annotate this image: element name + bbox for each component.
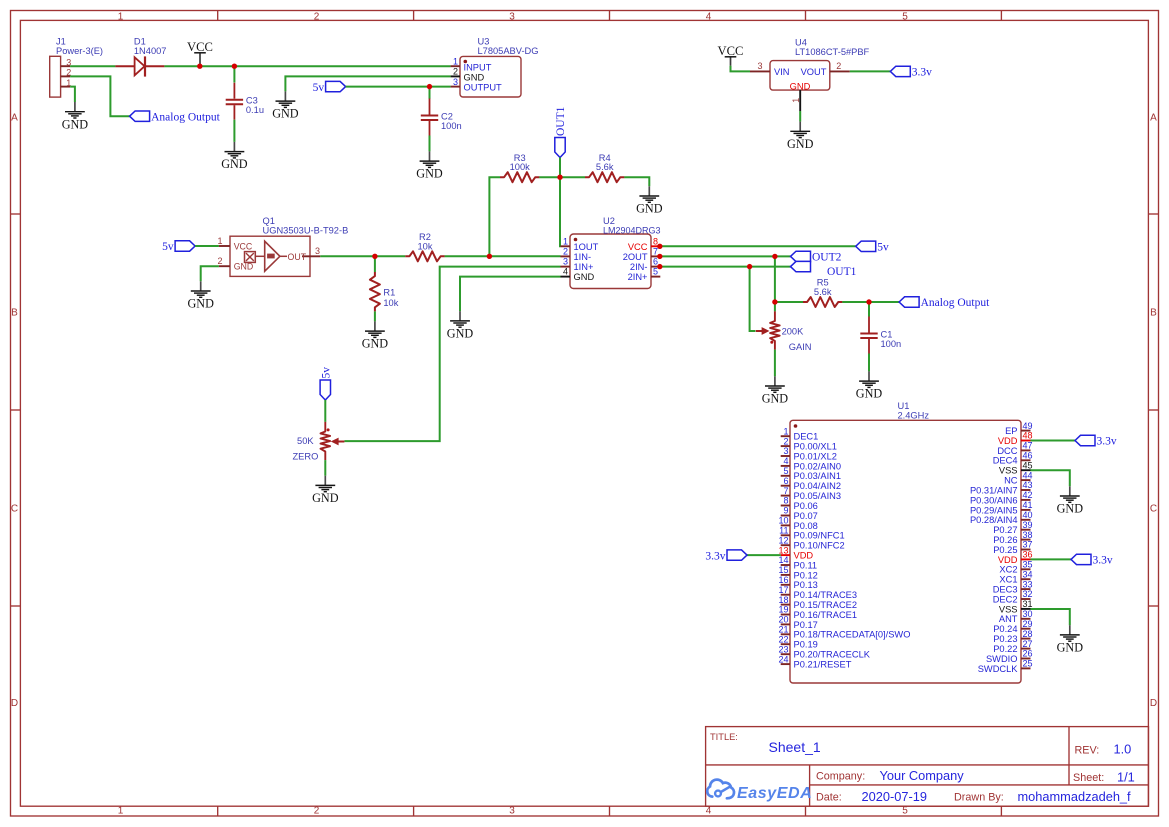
wire xyxy=(1031,558,1072,560)
svg-text:VDD: VDD xyxy=(998,555,1018,565)
svg-text:P0.08: P0.08 xyxy=(794,521,818,531)
wire VCC rail xyxy=(164,65,450,67)
svg-text:DEC1: DEC1 xyxy=(794,432,819,442)
wire xyxy=(201,266,219,281)
svg-text:U2: U2 xyxy=(603,216,615,226)
svg-text:VSS: VSS xyxy=(999,466,1018,476)
net flag 5v xyxy=(856,241,889,253)
svg-text:GND: GND xyxy=(1057,502,1084,516)
svg-text:50K: 50K xyxy=(297,436,314,446)
svg-text:D1: D1 xyxy=(134,37,146,47)
svg-text:D: D xyxy=(11,698,18,709)
svg-text:2IN-: 2IN- xyxy=(630,262,648,272)
svg-text:16: 16 xyxy=(778,575,788,585)
svg-text:3.3v: 3.3v xyxy=(912,67,932,79)
microcontroller U1 xyxy=(778,401,1032,683)
svg-text:EP: EP xyxy=(1005,426,1017,436)
svg-text:P0.01/XL2: P0.01/XL2 xyxy=(794,451,837,461)
junction xyxy=(657,244,662,249)
svg-text:100n: 100n xyxy=(441,121,462,131)
svg-text:ZERO: ZERO xyxy=(292,452,318,462)
wire xyxy=(324,400,326,422)
svg-text:D: D xyxy=(1150,698,1157,709)
svg-text:3: 3 xyxy=(509,11,515,22)
svg-text:48: 48 xyxy=(1023,431,1033,441)
svg-text:2: 2 xyxy=(783,436,788,446)
capacitor C3 xyxy=(233,83,235,99)
svg-text:P0.19: P0.19 xyxy=(794,640,818,650)
junction xyxy=(487,254,492,259)
svg-text:10: 10 xyxy=(778,516,788,526)
resistor R5 xyxy=(803,297,842,307)
svg-text:6: 6 xyxy=(783,476,788,486)
svg-text:30: 30 xyxy=(1023,609,1033,619)
svg-text:GND: GND xyxy=(416,167,443,181)
wire xyxy=(799,111,801,122)
svg-text:P0.22: P0.22 xyxy=(993,644,1017,654)
svg-text:31: 31 xyxy=(1023,599,1033,609)
svg-text:Your Company: Your Company xyxy=(880,768,965,783)
svg-text:P0.04/AIN2: P0.04/AIN2 xyxy=(794,481,842,491)
svg-text:34: 34 xyxy=(1023,569,1033,579)
net flag OUT1 xyxy=(555,106,567,157)
diode D1 xyxy=(115,37,166,77)
svg-text:DCC: DCC xyxy=(997,446,1017,456)
wire xyxy=(750,267,756,331)
svg-text:P0.24: P0.24 xyxy=(993,624,1017,634)
svg-text:44: 44 xyxy=(1023,470,1033,480)
svg-text:ANT: ANT xyxy=(999,614,1018,624)
junction xyxy=(232,63,237,68)
svg-text:REV:: REV: xyxy=(1075,745,1100,757)
net flag Analog Output xyxy=(899,297,990,309)
svg-text:GND: GND xyxy=(221,157,248,171)
svg-text:VOUT: VOUT xyxy=(801,67,827,77)
svg-text:OUT1: OUT1 xyxy=(827,266,857,278)
svg-text:5: 5 xyxy=(902,806,908,817)
svg-text:1IN+: 1IN+ xyxy=(574,262,594,272)
svg-text:Date:: Date: xyxy=(816,792,842,804)
svg-text:Power-3(E): Power-3(E) xyxy=(56,46,103,56)
svg-text:1: 1 xyxy=(791,98,801,103)
net flag 3.3v xyxy=(890,66,932,78)
svg-text:2: 2 xyxy=(453,67,458,77)
svg-text:1: 1 xyxy=(118,11,124,22)
svg-text:36: 36 xyxy=(1023,550,1033,560)
svg-text:100n: 100n xyxy=(881,339,902,349)
svg-text:0.1u: 0.1u xyxy=(246,105,264,115)
svg-text:4: 4 xyxy=(563,267,568,277)
svg-text:22: 22 xyxy=(778,634,788,644)
net flag 5v xyxy=(313,81,346,93)
wire xyxy=(660,255,790,257)
svg-text:5v: 5v xyxy=(313,82,325,94)
svg-text:LT1086CT-5#PBF: LT1086CT-5#PBF xyxy=(795,47,870,57)
wire xyxy=(233,120,235,142)
wire xyxy=(320,255,405,257)
svg-text:1: 1 xyxy=(563,236,568,246)
junction xyxy=(772,254,777,259)
svg-text:2: 2 xyxy=(314,806,320,817)
ground xyxy=(272,91,299,120)
svg-text:45: 45 xyxy=(1023,460,1033,470)
wire xyxy=(374,256,376,272)
svg-text:27: 27 xyxy=(1023,639,1033,649)
svg-text:GND: GND xyxy=(362,337,389,351)
svg-text:3.3v: 3.3v xyxy=(705,550,725,562)
wire xyxy=(429,136,431,152)
svg-text:GND: GND xyxy=(312,491,339,505)
wire xyxy=(324,460,326,476)
svg-text:C2: C2 xyxy=(441,112,453,122)
svg-text:GND: GND xyxy=(636,202,663,216)
svg-text:GND: GND xyxy=(762,392,789,406)
svg-text:P0.05/AIN3: P0.05/AIN3 xyxy=(794,491,842,501)
wire xyxy=(445,255,561,257)
svg-text:C: C xyxy=(1150,504,1157,515)
svg-text:100k: 100k xyxy=(510,162,531,172)
svg-text:5v: 5v xyxy=(162,241,174,253)
svg-text:P0.00/XL1: P0.00/XL1 xyxy=(794,442,837,452)
ground xyxy=(1057,625,1084,654)
svg-text:LM2904DRG3: LM2904DRG3 xyxy=(603,226,661,236)
svg-text:5: 5 xyxy=(902,11,908,22)
svg-text:1: 1 xyxy=(453,56,458,66)
svg-text:P0.25: P0.25 xyxy=(993,545,1017,555)
junction xyxy=(372,254,377,259)
svg-text:DEC3: DEC3 xyxy=(993,585,1018,595)
svg-text:P0.09/NFC1: P0.09/NFC1 xyxy=(794,531,845,541)
wire xyxy=(1031,470,1070,486)
svg-text:43: 43 xyxy=(1023,480,1033,490)
wire xyxy=(774,302,776,311)
junction xyxy=(427,84,432,89)
svg-text:P0.27: P0.27 xyxy=(993,525,1017,535)
svg-text:2020-07-19: 2020-07-19 xyxy=(862,789,927,804)
svg-text:OUT: OUT xyxy=(288,252,307,262)
svg-text:1: 1 xyxy=(118,806,124,817)
wire xyxy=(731,66,751,72)
power flag VCC xyxy=(718,44,744,66)
net flag 5v xyxy=(320,367,332,400)
svg-text:4: 4 xyxy=(783,456,788,466)
svg-text:7: 7 xyxy=(653,246,658,256)
svg-text:NC: NC xyxy=(1004,476,1018,486)
svg-text:SWDCLK: SWDCLK xyxy=(978,664,1019,674)
wire xyxy=(539,176,585,178)
ground xyxy=(762,376,789,405)
svg-text:10k: 10k xyxy=(383,298,398,308)
svg-text:49: 49 xyxy=(1023,421,1033,431)
svg-text:GND: GND xyxy=(62,117,89,131)
svg-text:29: 29 xyxy=(1023,619,1033,629)
resistor R1 xyxy=(370,272,380,311)
regulator U4 xyxy=(750,38,870,112)
wire xyxy=(70,87,75,102)
svg-text:2: 2 xyxy=(563,246,568,256)
svg-text:40: 40 xyxy=(1023,510,1033,520)
svg-text:GND: GND xyxy=(447,327,474,341)
svg-text:C1: C1 xyxy=(881,330,893,340)
wire xyxy=(346,86,451,88)
svg-text:38: 38 xyxy=(1023,530,1033,540)
wire xyxy=(774,256,776,302)
svg-text:P0.07: P0.07 xyxy=(794,511,818,521)
svg-text:P0.16/TRACE1: P0.16/TRACE1 xyxy=(794,610,858,620)
svg-text:P0.12: P0.12 xyxy=(794,570,818,580)
wire xyxy=(747,554,781,556)
ground xyxy=(187,281,214,310)
wire xyxy=(559,177,562,246)
svg-text:P0.14/TRACE3: P0.14/TRACE3 xyxy=(794,590,858,600)
svg-text:L7805ABV-DG: L7805ABV-DG xyxy=(478,46,539,56)
svg-text:VCC: VCC xyxy=(718,44,744,58)
wire xyxy=(842,301,899,303)
svg-text:26: 26 xyxy=(1023,649,1033,659)
svg-text:23: 23 xyxy=(778,644,788,654)
svg-text:GND: GND xyxy=(787,137,814,151)
svg-text:2OUT: 2OUT xyxy=(623,252,648,262)
svg-text:XC2: XC2 xyxy=(999,565,1017,575)
svg-text:32: 32 xyxy=(1023,589,1033,599)
svg-text:3: 3 xyxy=(509,806,515,817)
svg-text:Company:: Company: xyxy=(816,771,865,783)
svg-text:VSS: VSS xyxy=(999,604,1018,614)
svg-text:35: 35 xyxy=(1023,560,1033,570)
wire xyxy=(70,76,130,116)
svg-text:P0.13: P0.13 xyxy=(794,580,818,590)
svg-text:GND: GND xyxy=(1057,641,1084,655)
svg-text:VDD: VDD xyxy=(998,436,1018,446)
net flag 3.3v xyxy=(705,550,747,562)
capacitor C1 xyxy=(868,317,870,333)
svg-text:P0.03/AIN1: P0.03/AIN1 xyxy=(794,471,842,481)
svg-text:GND: GND xyxy=(856,387,883,401)
svg-text:VDD: VDD xyxy=(794,551,814,561)
svg-text:P0.06: P0.06 xyxy=(794,501,818,511)
wire xyxy=(559,158,561,178)
svg-text:GAIN: GAIN xyxy=(789,342,812,352)
net flag 3.3v xyxy=(1075,435,1117,447)
net flag 5v xyxy=(162,241,195,253)
wire xyxy=(1031,440,1076,442)
svg-text:9: 9 xyxy=(783,506,788,516)
svg-text:P0.31/AIN7: P0.31/AIN7 xyxy=(970,485,1018,495)
svg-text:P0.23: P0.23 xyxy=(993,634,1017,644)
svg-text:GND: GND xyxy=(464,72,485,82)
svg-text:5v: 5v xyxy=(877,242,889,254)
svg-text:GND: GND xyxy=(574,272,595,282)
wire xyxy=(660,245,855,247)
svg-text:3.3v: 3.3v xyxy=(1093,555,1113,567)
ground xyxy=(856,371,883,400)
resistor R4 xyxy=(585,172,624,182)
svg-text:41: 41 xyxy=(1023,500,1033,510)
svg-text:5: 5 xyxy=(783,466,788,476)
svg-text:13: 13 xyxy=(778,545,788,555)
svg-text:SWDIO: SWDIO xyxy=(986,654,1018,664)
svg-text:1OUT: 1OUT xyxy=(574,242,599,252)
svg-text:2IN+: 2IN+ xyxy=(628,272,648,282)
connector J1 xyxy=(50,37,103,98)
svg-text:mohammadzadeh_f: mohammadzadeh_f xyxy=(1018,789,1132,804)
svg-text:Analog Output: Analog Output xyxy=(151,111,220,123)
svg-text:C: C xyxy=(11,504,18,515)
ground xyxy=(1057,486,1084,515)
capacitor C2 xyxy=(429,99,431,115)
svg-text:P0.29/AIN5: P0.29/AIN5 xyxy=(970,505,1018,515)
svg-text:15: 15 xyxy=(778,565,788,575)
title block text xyxy=(710,732,1135,804)
svg-text:GND: GND xyxy=(187,297,214,311)
svg-text:VCC: VCC xyxy=(234,242,253,252)
svg-text:P0.02/AIN0: P0.02/AIN0 xyxy=(794,461,842,471)
svg-text:46: 46 xyxy=(1023,451,1033,461)
svg-text:2: 2 xyxy=(217,256,222,266)
svg-text:R1: R1 xyxy=(383,288,395,298)
svg-text:P0.21/RESET: P0.21/RESET xyxy=(794,660,852,670)
svg-text:2: 2 xyxy=(836,61,841,71)
svg-text:P0.30/AIN6: P0.30/AIN6 xyxy=(970,495,1018,505)
net flag OUT2 xyxy=(791,251,842,263)
title block xyxy=(706,727,1149,807)
svg-text:2: 2 xyxy=(314,11,320,22)
svg-text:Drawn By:: Drawn By: xyxy=(954,792,1004,804)
ground xyxy=(636,186,663,215)
svg-text:10k: 10k xyxy=(418,241,433,251)
junction xyxy=(866,299,871,304)
svg-text:Sheet:: Sheet: xyxy=(1073,772,1104,784)
svg-text:GND: GND xyxy=(272,107,299,121)
svg-text:OUT1: OUT1 xyxy=(555,106,567,136)
svg-text:J1: J1 xyxy=(56,37,66,47)
ground xyxy=(416,151,443,180)
svg-text:U3: U3 xyxy=(478,37,490,47)
wire xyxy=(1031,609,1070,625)
wire xyxy=(868,354,870,372)
wire xyxy=(429,87,431,99)
svg-text:24: 24 xyxy=(778,654,788,664)
svg-text:20: 20 xyxy=(778,615,788,625)
svg-text:42: 42 xyxy=(1023,490,1033,500)
svg-text:VCC: VCC xyxy=(187,40,213,54)
ground xyxy=(312,476,339,505)
svg-text:3: 3 xyxy=(563,257,568,267)
resistor R2 xyxy=(405,251,444,261)
svg-text:OUT2: OUT2 xyxy=(812,252,842,264)
svg-text:1.0: 1.0 xyxy=(1114,742,1132,757)
junction xyxy=(197,63,202,68)
potentiometer ZERO 50K xyxy=(321,422,331,460)
svg-text:47: 47 xyxy=(1023,441,1033,451)
svg-text:VCC: VCC xyxy=(628,242,648,252)
svg-text:DEC4: DEC4 xyxy=(993,456,1018,466)
svg-text:3: 3 xyxy=(757,61,762,71)
svg-text:3: 3 xyxy=(315,246,320,256)
svg-text:U4: U4 xyxy=(795,38,807,48)
svg-text:4: 4 xyxy=(706,11,712,22)
potentiometer GAIN 200K xyxy=(770,311,780,349)
svg-text:4: 4 xyxy=(706,806,712,817)
svg-text:VIN: VIN xyxy=(774,67,790,77)
svg-text:1/1: 1/1 xyxy=(1117,770,1135,785)
svg-text:5v: 5v xyxy=(321,367,333,379)
ground xyxy=(62,102,89,131)
junction xyxy=(772,299,777,304)
junction xyxy=(657,264,662,269)
svg-text:B: B xyxy=(1150,308,1157,319)
svg-text:12: 12 xyxy=(778,535,788,545)
svg-text:GND: GND xyxy=(234,262,254,272)
svg-text:P0.10/NFC2: P0.10/NFC2 xyxy=(794,541,845,551)
wire xyxy=(195,245,219,247)
svg-text:7: 7 xyxy=(783,486,788,496)
wire xyxy=(285,76,450,91)
svg-text:2.4GHz: 2.4GHz xyxy=(898,411,930,421)
svg-text:1IN-: 1IN- xyxy=(574,252,592,262)
EasyEDA logo xyxy=(707,780,812,802)
svg-text:3: 3 xyxy=(453,77,458,87)
svg-text:P0.20/TRACECLK: P0.20/TRACECLK xyxy=(794,650,871,660)
svg-text:P0.28/AIN4: P0.28/AIN4 xyxy=(970,515,1018,525)
svg-text:25: 25 xyxy=(1023,659,1033,669)
wire xyxy=(460,277,561,312)
net flag 3.3v xyxy=(1071,554,1113,566)
net flag OUT1 xyxy=(791,261,857,278)
net flag Analog Output xyxy=(130,111,221,123)
hall sensor Q1 xyxy=(217,216,348,276)
svg-text:U1: U1 xyxy=(898,401,910,411)
svg-text:B: B xyxy=(11,308,18,319)
svg-text:P0.11: P0.11 xyxy=(794,560,818,570)
wire xyxy=(775,301,803,303)
svg-text:5.6k: 5.6k xyxy=(814,287,832,297)
svg-text:3: 3 xyxy=(783,446,788,456)
svg-text:1: 1 xyxy=(217,236,222,246)
svg-text:8: 8 xyxy=(653,236,658,246)
svg-text:5.6k: 5.6k xyxy=(596,162,614,172)
wire xyxy=(489,177,500,256)
svg-text:UGN3503U-B-T92-B: UGN3503U-B-T92-B xyxy=(263,226,349,236)
svg-text:C3: C3 xyxy=(246,96,258,106)
regulator U3 xyxy=(451,37,539,98)
svg-text:DEC2: DEC2 xyxy=(993,594,1018,604)
junction xyxy=(657,254,662,259)
svg-text:5: 5 xyxy=(653,267,658,277)
wire xyxy=(850,70,891,72)
wire xyxy=(868,302,870,317)
svg-text:39: 39 xyxy=(1023,520,1033,530)
svg-text:P0.18/TRACEDATA[0]/SWO: P0.18/TRACEDATA[0]/SWO xyxy=(794,630,911,640)
junction xyxy=(557,175,562,180)
svg-text:18: 18 xyxy=(778,595,788,605)
svg-text:1: 1 xyxy=(783,426,788,436)
svg-text:P0.17: P0.17 xyxy=(794,620,818,630)
svg-text:33: 33 xyxy=(1023,579,1033,589)
svg-text:1N4007: 1N4007 xyxy=(134,46,167,56)
svg-text:21: 21 xyxy=(778,625,788,635)
svg-text:A: A xyxy=(1150,112,1157,123)
junction xyxy=(747,264,752,269)
wire xyxy=(774,350,776,377)
power flag VCC xyxy=(187,40,213,66)
svg-text:P0.15/TRACE2: P0.15/TRACE2 xyxy=(794,600,858,610)
resistor R3 xyxy=(500,172,539,182)
svg-text:A: A xyxy=(11,112,18,123)
svg-text:19: 19 xyxy=(778,605,788,615)
wire xyxy=(624,177,649,186)
svg-text:Q1: Q1 xyxy=(263,216,275,226)
